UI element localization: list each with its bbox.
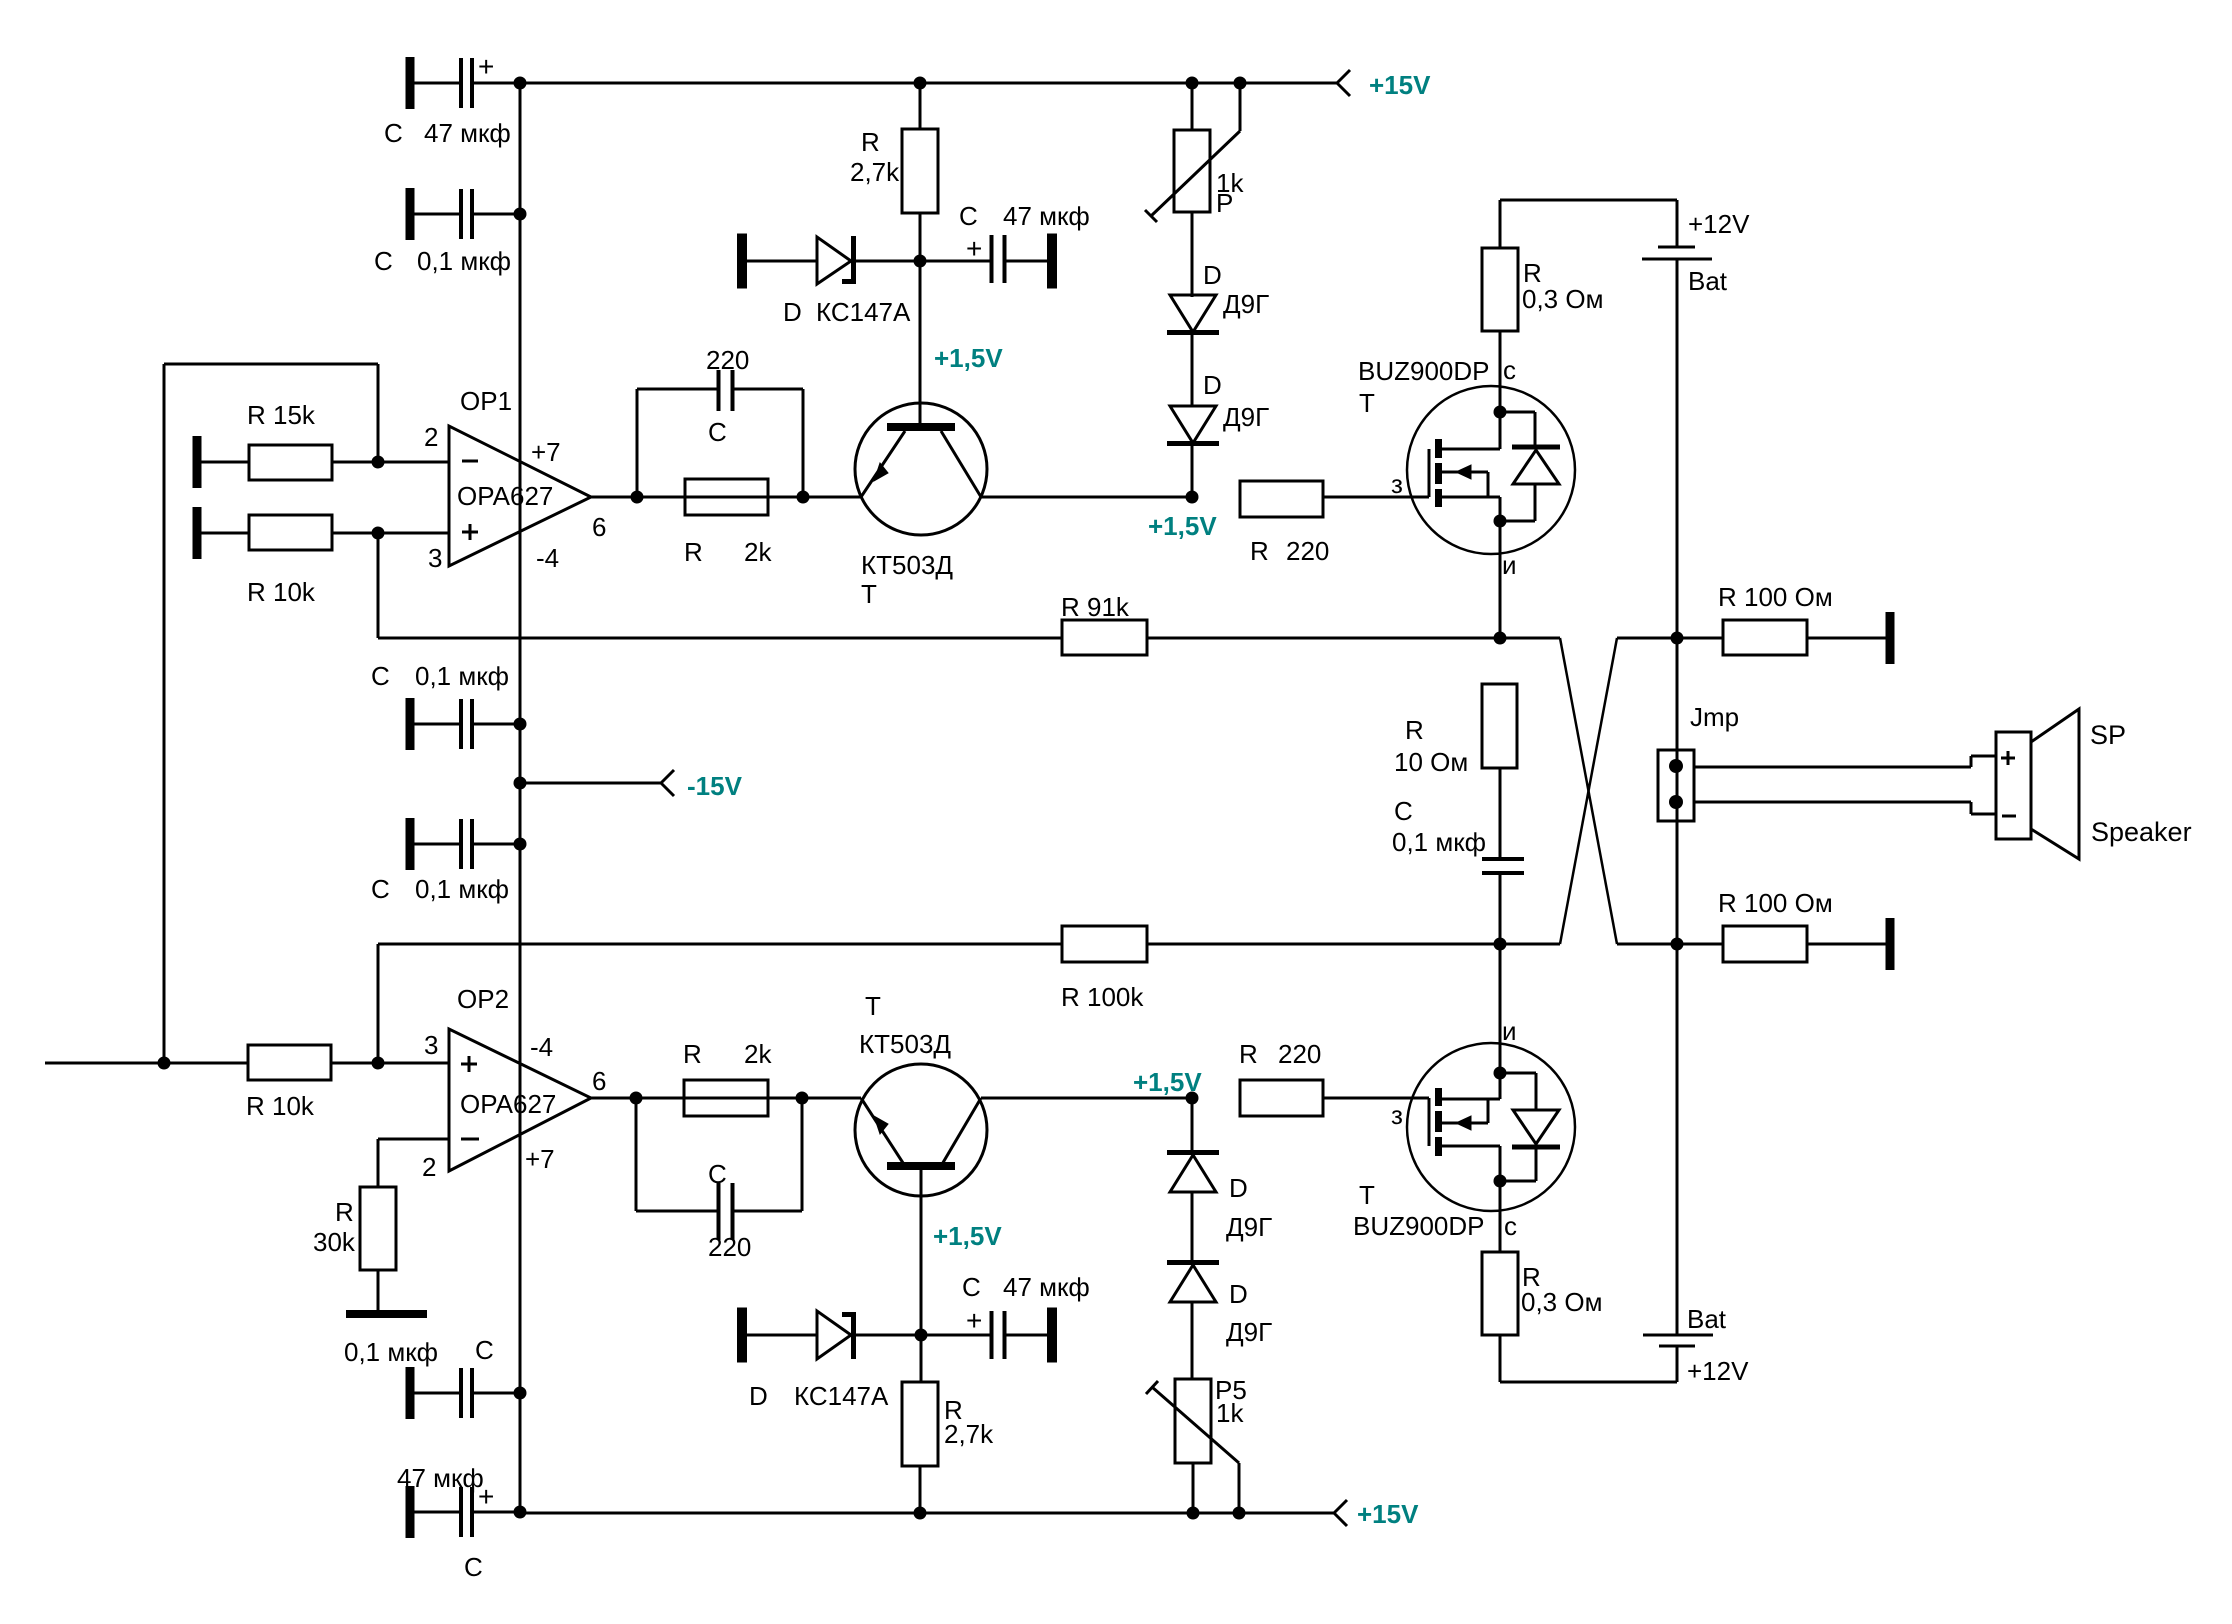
svg-text:Jmp: Jmp xyxy=(1690,702,1739,732)
svg-text:0,1 мкф: 0,1 мкф xyxy=(415,874,509,904)
svg-text:КТ503Д: КТ503Д xyxy=(861,550,953,580)
svg-text:BUZ900DP: BUZ900DP xyxy=(1353,1211,1485,1241)
svg-text:с: с xyxy=(1504,1211,1517,1241)
svg-text:3: 3 xyxy=(424,1030,438,1060)
svg-text:с: с xyxy=(1503,355,1516,385)
svg-text:R 10k: R 10k xyxy=(246,1091,315,1121)
svg-text:+: + xyxy=(478,51,494,82)
svg-text:+: + xyxy=(966,1305,982,1336)
svg-text:R: R xyxy=(1250,536,1269,566)
svg-text:0,3 Ом: 0,3 Ом xyxy=(1522,284,1603,314)
svg-text:47 мкф: 47 мкф xyxy=(1003,201,1090,231)
svg-text:0,1 мкф: 0,1 мкф xyxy=(1392,827,1486,857)
svg-text:T: T xyxy=(1359,388,1375,418)
svg-text:+1,5V: +1,5V xyxy=(933,1221,1002,1251)
svg-text:C: C xyxy=(708,1159,727,1189)
svg-text:и: и xyxy=(1502,550,1517,580)
svg-text:D: D xyxy=(1229,1173,1248,1203)
svg-text:C: C xyxy=(1394,796,1413,826)
svg-text:+: + xyxy=(478,1481,494,1512)
svg-text:T: T xyxy=(865,991,881,1021)
svg-text:0,3 Ом: 0,3 Ом xyxy=(1521,1287,1602,1317)
svg-text:+15V: +15V xyxy=(1369,70,1431,100)
svg-text:R 100 Ом: R 100 Ом xyxy=(1718,888,1833,918)
svg-text:-4: -4 xyxy=(530,1032,553,1062)
svg-text:R: R xyxy=(684,537,703,567)
svg-text:220: 220 xyxy=(1286,536,1329,566)
svg-text:R 100k: R 100k xyxy=(1061,982,1144,1012)
svg-text:C: C xyxy=(959,201,978,231)
svg-text:R: R xyxy=(683,1039,702,1069)
svg-text:R 100 Ом: R 100 Ом xyxy=(1718,582,1833,612)
svg-text:30k: 30k xyxy=(313,1227,356,1257)
svg-text:Д9Г: Д9Г xyxy=(1223,402,1269,432)
svg-text:BUZ900DP: BUZ900DP xyxy=(1358,356,1490,386)
svg-text:T: T xyxy=(1359,1180,1375,1210)
svg-text:1k: 1k xyxy=(1216,1398,1244,1428)
svg-text:Д9Г: Д9Г xyxy=(1223,289,1269,319)
svg-text:D: D xyxy=(1229,1279,1248,1309)
svg-text:Bat: Bat xyxy=(1688,266,1728,296)
svg-text:D: D xyxy=(1203,260,1222,290)
svg-text:з: з xyxy=(1391,1100,1403,1130)
svg-text:3: 3 xyxy=(428,543,442,573)
svg-text:D: D xyxy=(783,297,802,327)
svg-text:2: 2 xyxy=(424,422,438,452)
svg-text:+15V: +15V xyxy=(1357,1499,1419,1529)
svg-text:2k: 2k xyxy=(744,537,772,567)
svg-text:R: R xyxy=(1405,715,1424,745)
svg-text:КС147А: КС147А xyxy=(794,1381,889,1411)
svg-text:з: з xyxy=(1391,469,1403,499)
svg-text:47 мкф: 47 мкф xyxy=(1003,1272,1090,1302)
svg-text:OPA627: OPA627 xyxy=(457,481,553,511)
svg-text:C: C xyxy=(962,1272,981,1302)
svg-text:Speaker: Speaker xyxy=(2091,817,2192,847)
svg-text:+7: +7 xyxy=(525,1144,555,1174)
svg-text:Д9Г: Д9Г xyxy=(1226,1317,1272,1347)
svg-text:R 91k: R 91k xyxy=(1061,592,1130,622)
svg-text:SP: SP xyxy=(2090,720,2126,750)
svg-text:T: T xyxy=(861,579,877,609)
svg-text:10 Ом: 10 Ом xyxy=(1394,747,1468,777)
svg-text:C: C xyxy=(371,661,390,691)
svg-text:Д9Г: Д9Г xyxy=(1226,1212,1272,1242)
svg-text:C: C xyxy=(708,417,727,447)
svg-text:220: 220 xyxy=(1278,1039,1321,1069)
svg-text:OP1: OP1 xyxy=(460,386,512,416)
svg-text:OPA627: OPA627 xyxy=(460,1089,556,1119)
svg-text:220: 220 xyxy=(708,1232,751,1262)
svg-text:6: 6 xyxy=(592,1066,606,1096)
svg-text:R: R xyxy=(335,1197,354,1227)
svg-text:-4: -4 xyxy=(536,543,559,573)
svg-text:2,7k: 2,7k xyxy=(944,1419,994,1449)
svg-text:+: + xyxy=(966,233,982,264)
svg-text:C: C xyxy=(384,118,403,148)
svg-text:-15V: -15V xyxy=(687,771,743,801)
svg-text:C: C xyxy=(371,874,390,904)
svg-text:R 15k: R 15k xyxy=(247,400,316,430)
svg-text:47 мкф: 47 мкф xyxy=(424,118,511,148)
svg-text:2: 2 xyxy=(422,1152,436,1182)
svg-text:OP2: OP2 xyxy=(457,984,509,1014)
svg-text:+1,5V: +1,5V xyxy=(1148,511,1217,541)
svg-text:КТ503Д: КТ503Д xyxy=(859,1029,951,1059)
svg-text:КС147А: КС147А xyxy=(816,297,911,327)
svg-text:2k: 2k xyxy=(744,1039,772,1069)
svg-text:и: и xyxy=(1502,1016,1517,1046)
svg-text:C: C xyxy=(475,1335,494,1365)
svg-text:R 10k: R 10k xyxy=(247,577,316,607)
svg-text:2,7k: 2,7k xyxy=(850,157,900,187)
svg-text:D: D xyxy=(1203,370,1222,400)
svg-text:6: 6 xyxy=(592,512,606,542)
svg-text:+7: +7 xyxy=(531,437,561,467)
svg-text:+1,5V: +1,5V xyxy=(1133,1067,1202,1097)
svg-text:C: C xyxy=(374,246,393,276)
svg-text:D: D xyxy=(749,1381,768,1411)
svg-text:+12V: +12V xyxy=(1687,1356,1749,1386)
svg-text:R: R xyxy=(861,127,880,157)
svg-text:+1,5V: +1,5V xyxy=(934,343,1003,373)
svg-text:C: C xyxy=(464,1552,483,1582)
svg-text:Bat: Bat xyxy=(1687,1304,1727,1334)
svg-text:0,1 мкф: 0,1 мкф xyxy=(417,246,511,276)
svg-text:+12V: +12V xyxy=(1688,209,1750,239)
svg-text:0,1 мкф: 0,1 мкф xyxy=(415,661,509,691)
svg-text:0,1 мкф: 0,1 мкф xyxy=(344,1337,438,1367)
svg-text:P: P xyxy=(1216,188,1233,218)
svg-text:R: R xyxy=(1239,1039,1258,1069)
svg-text:220: 220 xyxy=(706,345,749,375)
